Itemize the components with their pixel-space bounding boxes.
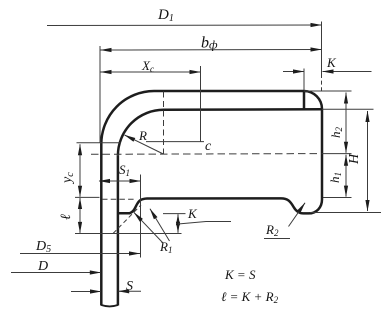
- dimension l vertical: [79, 198, 81, 233]
- svg-text:S: S: [126, 279, 133, 294]
- dashed diagonal through R1 arc centres: [113, 205, 141, 234]
- extension S1/D5 vertical: [140, 175, 142, 258]
- inner bend surface: arc R and inner top line: [118, 109, 322, 155]
- svg-text:c: c: [205, 139, 212, 154]
- dashed vertical through bend arc centre: [163, 92, 165, 156]
- extension line Xc right / centroid vertical to point C: [200, 66, 202, 142]
- h1 bottom extension: [323, 197, 352, 199]
- tube right wall: [117, 156, 120, 306]
- h2 top extension: [304, 90, 352, 92]
- axis extension right: [322, 153, 352, 155]
- svg-text:S1: S1: [119, 162, 130, 178]
- l bottom extension line: [75, 233, 182, 235]
- flange bottom extension (K top): [163, 213, 186, 215]
- svg-text:ℓ: ℓ: [59, 214, 74, 220]
- H top extension: [322, 108, 374, 110]
- svg-text:bф: bф: [201, 35, 218, 52]
- dimension S: arrows outside pointing inward: [71, 291, 101, 293]
- dimension D line: [11, 272, 101, 274]
- right end cap chord: [303, 91, 306, 109]
- dashed horizontal axis line: [91, 153, 322, 156]
- svg-text:ℓ = K + R2: ℓ = K + R2: [221, 289, 279, 305]
- dimension b-phi line with both arrows: [101, 49, 322, 52]
- dimension h2 / h1 shared vertical: [345, 93, 347, 153]
- dimension K (bottom) vertical: [177, 214, 179, 233]
- flange level extension (yc bottom / l top): [75, 196, 100, 198]
- centroid horizontal line (through C): [146, 141, 204, 143]
- svg-text:D: D: [37, 259, 48, 274]
- H bottom extension: [310, 212, 381, 214]
- R2 label underline: [264, 238, 290, 240]
- svg-text:D1: D1: [157, 7, 174, 24]
- dimension S1 line: [99, 180, 141, 182]
- dimension yc vertical: [79, 144, 81, 197]
- radius R line with arrow to inner arc: [125, 135, 164, 154]
- svg-text:K: K: [326, 55, 337, 70]
- svg-text:R2: R2: [265, 222, 279, 238]
- svg-text:h1: h1: [327, 172, 343, 183]
- R1 leader lines with arrows: [134, 212, 163, 243]
- dimension K (top right): line with inward arrows from outside: [283, 71, 304, 73]
- dimension Xc line: [101, 71, 201, 73]
- svg-text:D5: D5: [35, 239, 51, 255]
- dimension H vertical: [367, 111, 369, 211]
- svg-text:h2: h2: [328, 127, 344, 139]
- svg-text:Xc: Xc: [141, 58, 154, 74]
- part outline (bent tube / flanged section, outer contour): [101, 91, 322, 306]
- R2 leader with arrow: [289, 203, 306, 227]
- dashed flange level inside tube: [102, 198, 136, 200]
- extension line K left (inner end face): [303, 69, 305, 91]
- svg-text:H: H: [347, 153, 362, 165]
- svg-text:K: K: [187, 206, 198, 221]
- svg-text:R: R: [138, 128, 147, 143]
- extension line left wall (b-phi / Xc): [99, 46, 101, 143]
- dimension D1 line with right arrow: [47, 24, 322, 27]
- dimension D5 line: [20, 253, 140, 255]
- svg-text:yc: yc: [60, 172, 76, 185]
- K leader shelf: [178, 222, 231, 225]
- extension line right end (D1 / b-phi / K), solid then dashed: [321, 22, 323, 75]
- svg-text:K = S: K = S: [224, 267, 256, 282]
- tube bottom end cap: [101, 305, 118, 306]
- svg-text:R1: R1: [159, 239, 172, 255]
- yc top extension: [77, 142, 121, 144]
